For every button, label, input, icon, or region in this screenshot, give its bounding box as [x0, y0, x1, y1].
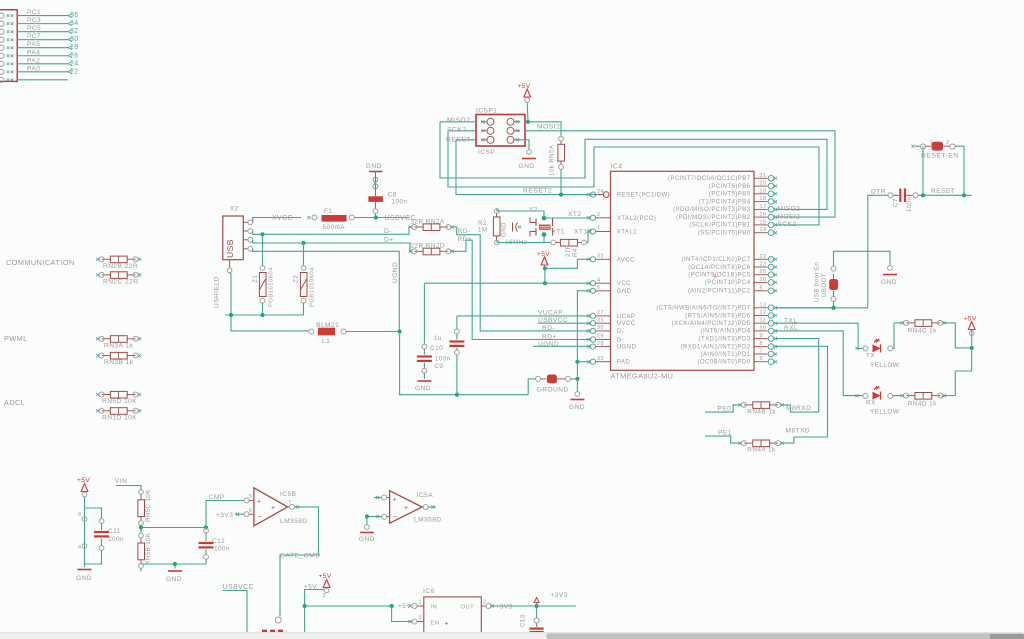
scrollbar thumb	[546, 633, 1024, 639]
svg-text:(AIN0/INT1)PD1: (AIN0/INT1)PD1	[701, 352, 751, 358]
svg-text:2: 2	[483, 600, 486, 606]
svg-text:PA4: PA4	[27, 49, 40, 56]
resistor RN5A 10k pullup	[528, 122, 561, 136]
svg-text:+5V: +5V	[319, 573, 332, 580]
wire R2 top to crystal	[497, 209, 544, 219]
svg-text:RESET: RESET	[931, 188, 955, 195]
header wire row 3	[17, 31, 68, 33]
resistor RN5D	[110, 391, 127, 398]
svg-text:(INT4/ICP1/CLK0)PC7: (INT4/ICP1/CLK0)PC7	[682, 257, 751, 263]
wire M8TXD to PD2	[775, 346, 828, 443]
svg-text:30: 30	[597, 325, 604, 331]
IC4 right pin PC6	[754, 266, 768, 268]
IC4 left pin D-	[590, 328, 595, 333]
op-amp IC5B LM358D	[254, 488, 288, 526]
svg-text:+5V: +5V	[537, 251, 550, 258]
wire +5V to IC6	[304, 589, 324, 591]
IC4 right pin PD3	[754, 338, 768, 340]
svg-text:24: 24	[70, 60, 79, 67]
ground symbol GND bottom-left	[84, 562, 86, 567]
svg-text:PE0: PE0	[717, 406, 731, 413]
svg-text:SCK2: SCK2	[447, 126, 467, 133]
svg-text:10: 10	[760, 325, 767, 331]
svg-text:RN2B 22R: RN2B 22R	[103, 263, 138, 270]
IC4 right pin PD1	[754, 353, 768, 355]
svg-text:22: 22	[70, 68, 79, 75]
svg-text:16: 16	[760, 212, 767, 218]
resistor RN4D 1k	[893, 395, 904, 397]
svg-text:RN5C 10K: RN5C 10K	[145, 489, 152, 522]
svg-text:SCK2: SCK2	[778, 221, 797, 228]
svg-text:23: 23	[760, 262, 767, 268]
svg-text:6: 6	[760, 356, 763, 362]
svg-text:CMP: CMP	[209, 494, 225, 501]
svg-text:PAD: PAD	[617, 360, 630, 366]
svg-text:USB boot En: USB boot En	[814, 262, 821, 302]
wire XT1 crystal bottom	[496, 240, 498, 243]
ground symbol GND below IC5A	[365, 514, 369, 518]
svg-text:+5V: +5V	[518, 83, 531, 90]
svg-text:1: 1	[930, 140, 933, 146]
svg-text:20: 20	[760, 181, 767, 187]
wire USHIELD	[230, 273, 309, 331]
svg-text:D-: D-	[617, 329, 624, 335]
wire TXL from PD5	[775, 323, 863, 348]
wire MOSI2 from ICSP to IC4 PB2	[525, 131, 835, 217]
wire TX LED to RN4C	[893, 323, 904, 349]
solder jumper UBOOT USB boot En	[775, 307, 834, 309]
svg-text:X2: X2	[230, 206, 239, 213]
svg-text:(T1/PCINT4)PB4: (T1/PCINT4)PB4	[699, 199, 751, 205]
svg-text:32: 32	[597, 254, 604, 260]
svg-text:7: 7	[288, 501, 291, 507]
IC4 left pin UVCC	[590, 321, 595, 326]
svg-text:(SCLK/PCINT1)PB1: (SCLK/PCINT1)PB1	[689, 223, 750, 229]
capacitor C8 100n	[368, 196, 383, 202]
wire DTR from PD7	[775, 307, 868, 309]
svg-text:22R RN2D: 22R RN2D	[411, 243, 446, 250]
IC4 right pin PD5	[754, 322, 768, 324]
resistor RN2B	[110, 256, 127, 263]
varistor Z1 PGB1010604	[262, 234, 264, 265]
scrollbar track	[0, 632, 1024, 639]
resistor RN2A 22R	[423, 224, 440, 231]
svg-text:4: 4	[597, 277, 600, 283]
resistor RN1D	[110, 408, 127, 415]
svg-text:GATE_CMD: GATE_CMD	[280, 553, 321, 560]
svg-text:30: 30	[70, 36, 79, 43]
svg-text:RD+: RD+	[542, 333, 557, 340]
net label USBVCC stub	[538, 322, 590, 324]
resistor RN5B 10K	[139, 533, 144, 538]
svg-text:PE1: PE1	[718, 430, 732, 437]
solder jumper RESET-EN	[922, 146, 924, 195]
svg-text:RN5B 10K: RN5B 10K	[145, 533, 152, 565]
resistor RN2C	[110, 272, 127, 279]
svg-text:29: 29	[597, 334, 604, 340]
svg-text:2: 2	[946, 140, 949, 146]
svg-text:UVCC: UVCC	[617, 321, 636, 327]
ground jumper SJ GROUND	[528, 379, 536, 395]
svg-text:−: −	[393, 514, 397, 521]
svg-text:USBVCC: USBVCC	[538, 317, 568, 324]
svg-text:+3V3: +3V3	[551, 592, 568, 599]
wire XT1R to XTAL1	[587, 232, 590, 243]
svg-text:GND: GND	[76, 575, 92, 582]
resistor RN4C 1k	[915, 320, 932, 327]
svg-text:1: 1	[419, 600, 422, 606]
wire VCC	[544, 268, 546, 283]
resistor RN4B 1k	[753, 402, 770, 409]
header wire row 6	[17, 55, 68, 57]
svg-text:RN4B 1k: RN4B 1k	[747, 409, 776, 416]
svg-text:+3V3: +3V3	[496, 603, 513, 610]
capacitor C10 1u	[457, 315, 590, 317]
wire XVCC	[253, 218, 301, 223]
svg-text:XTAL2(PCO): XTAL2(PCO)	[617, 216, 656, 222]
IC4 right pin PD4	[754, 330, 768, 332]
resistor RN2D 22R	[423, 248, 440, 255]
svg-text:4: 4	[78, 545, 81, 551]
svg-text:1: 1	[597, 226, 600, 232]
svg-text:RN4C 1k: RN4C 1k	[908, 328, 937, 335]
IC4 right pin PB5	[754, 193, 768, 195]
wire RESET2 from ICSP	[456, 139, 476, 141]
svg-text:IN: IN	[431, 604, 438, 610]
IC4 left pin UGND	[590, 344, 595, 349]
svg-text:VCC: VCC	[617, 281, 631, 287]
svg-text:25: 25	[760, 269, 767, 275]
svg-text:XT1: XT1	[552, 229, 565, 236]
svg-text:6: 6	[249, 508, 252, 514]
svg-text:(OC1A/PCINT8)PC6: (OC1A/PCINT8)PC6	[688, 265, 750, 271]
header wire row 1	[17, 15, 68, 17]
svg-text:UGND: UGND	[538, 341, 559, 348]
svg-text:100n: 100n	[435, 356, 451, 363]
IC6 EN pin	[392, 606, 412, 622]
svg-text:5: 5	[597, 285, 600, 291]
svg-text:(CTS/HWB/AIN6/TO/INT7)PD7: (CTS/HWB/AIN6/TO/INT7)PD7	[656, 306, 750, 312]
capacitor C7 100n	[888, 193, 893, 198]
svg-text:GND: GND	[415, 385, 431, 392]
svg-text:RESET2: RESET2	[523, 188, 552, 195]
IC4 right pin PC4	[754, 281, 768, 283]
wire PE0 M8RXD	[705, 405, 740, 412]
svg-text:GND: GND	[569, 404, 585, 411]
svg-text:ADCL: ADCL	[4, 398, 25, 407]
svg-text:(PCINT9/OC1B)PC5: (PCINT9/OC1B)PC5	[688, 273, 750, 279]
svg-text:+5V: +5V	[77, 477, 90, 484]
IC4 right pin PB7	[754, 177, 768, 179]
wire +5V to ICSP pin2	[525, 121, 528, 123]
svg-text:(PCINT5)PB5: (PCINT5)PB5	[709, 192, 751, 198]
svg-text:(RXD1/AIN1/INT2)PD2: (RXD1/AIN1/INT2)PD2	[681, 344, 751, 350]
header wire row 4	[17, 39, 68, 41]
gate cmd pin circle	[275, 617, 281, 623]
svg-text:XVCC: XVCC	[272, 215, 293, 222]
svg-text:ICSP: ICSP	[478, 149, 495, 156]
wire CMP node	[141, 527, 206, 529]
svg-text:100n: 100n	[108, 536, 124, 543]
IC4 right pin PC2	[754, 290, 768, 292]
USB shield pin	[229, 260, 231, 268]
svg-text:RESET(PC1/DW): RESET(PC1/DW)	[617, 193, 670, 199]
wire +5V to RN4D	[942, 348, 971, 396]
svg-text:F1: F1	[324, 208, 332, 215]
svg-text:11: 11	[760, 318, 767, 324]
svg-text:LM358D: LM358D	[280, 518, 308, 525]
svg-text:MISO2: MISO2	[778, 206, 801, 213]
IC4 left pin XTAL1	[590, 229, 595, 234]
svg-text:(SS/PCINT0)PB0: (SS/PCINT0)PB0	[698, 231, 751, 237]
svg-text:8: 8	[760, 341, 763, 347]
header wire row 2	[17, 23, 68, 25]
svg-text:31: 31	[597, 317, 604, 323]
svg-text:RN2C 22R: RN2C 22R	[103, 279, 138, 286]
header wire row 9	[17, 79, 68, 81]
svg-text:+: +	[445, 621, 449, 628]
svg-text:PA5: PA5	[27, 41, 40, 48]
svg-text:IC5B: IC5B	[280, 491, 297, 498]
ground symbol GND below C12	[141, 563, 175, 565]
svg-text:7: 7	[760, 349, 763, 355]
svg-text:TX: TX	[866, 353, 875, 360]
svg-text:PA0: PA0	[27, 65, 40, 72]
IC4 right pin PB2	[754, 216, 768, 218]
svg-text:(PDI/MOSI/PCINT2)PB2: (PDI/MOSI/PCINT2)PB2	[676, 215, 751, 221]
svg-text:R4: R4	[572, 248, 579, 257]
svg-text:10k RN5A: 10k RN5A	[549, 144, 556, 176]
svg-text:26: 26	[70, 52, 79, 59]
wire MISO2 from ICSP to IC4 PB3	[469, 121, 476, 123]
svg-text:2: 2	[597, 212, 600, 218]
svg-text:14: 14	[760, 227, 767, 233]
svg-text:Z2: Z2	[293, 275, 300, 283]
LED TX yellow	[855, 347, 858, 350]
IC4 right pin PD2	[754, 346, 768, 348]
svg-text:D+: D+	[384, 236, 394, 243]
svg-text:MISO2: MISO2	[447, 117, 470, 124]
svg-text:13: 13	[760, 302, 767, 308]
resistor RN5C 10K	[139, 490, 144, 495]
svg-text:(INT5/AIN3)PD4: (INT5/AIN3)PD4	[701, 329, 751, 335]
svg-text:RN4A 1k: RN4A 1k	[747, 447, 776, 454]
svg-text:+: +	[257, 499, 261, 506]
svg-text:RN3B 1k: RN3B 1k	[104, 359, 134, 366]
svg-text:(PDO/MISO/PCINT3)PB3: (PDO/MISO/PCINT3)PB3	[673, 207, 751, 213]
svg-text:M8TXD: M8TXD	[786, 428, 811, 435]
svg-text:(AIN2/PCINT11)PC2: (AIN2/PCINT11)PC2	[688, 289, 751, 295]
svg-text:UBOOT: UBOOT	[821, 273, 828, 297]
svg-text:27: 27	[597, 310, 604, 316]
svg-text:8: 8	[78, 512, 81, 518]
svg-text:RD-: RD-	[542, 325, 555, 332]
svg-text:LM358D: LM358D	[414, 517, 442, 524]
svg-text:C10: C10	[430, 345, 443, 352]
resistor RN4A 1k	[753, 440, 770, 447]
wire RD+	[451, 240, 590, 339]
connector header top-left	[0, 10, 17, 82]
svg-text:BLM21: BLM21	[316, 322, 339, 329]
IC4 left pin PAD	[590, 359, 595, 364]
svg-text:DTR: DTR	[871, 189, 886, 196]
svg-text:ATMEGA8U2-MU: ATMEGA8U2-MU	[611, 372, 674, 381]
svg-text:GND: GND	[519, 163, 535, 170]
svg-text:+: +	[271, 505, 275, 512]
svg-text:YELLOW: YELLOW	[870, 362, 900, 369]
svg-text:XT2: XT2	[568, 211, 581, 218]
svg-text:(XCK/AIN4/PCINT12)PD5: (XCK/AIN4/PCINT12)PD5	[672, 321, 751, 327]
svg-text:UGND: UGND	[617, 345, 637, 351]
wire D- from USB	[253, 227, 411, 234]
svg-text:+: +	[393, 497, 397, 504]
wire SCK2 from ICSP to IC4 PB1	[448, 130, 476, 132]
ground symbol GND below GROUND jumper	[576, 379, 578, 392]
svg-text:PGB1010604: PGB1010604	[310, 267, 316, 307]
wire USBVCC	[354, 217, 409, 219]
svg-text:AVCC: AVCC	[617, 257, 635, 263]
IC5 power pins	[82, 517, 87, 522]
svg-text:ICSP1: ICSP1	[476, 108, 497, 115]
svg-text:RN4D 1k: RN4D 1k	[908, 400, 937, 407]
wire RESET	[918, 194, 972, 196]
ferrite bead L1 BLM21	[309, 329, 314, 334]
svg-text:GND: GND	[359, 536, 375, 543]
IC IC4 ATMEGA8U2-MU	[611, 171, 755, 370]
svg-text:RN3A 1k: RN3A 1k	[104, 342, 133, 349]
svg-text:IC5A: IC5A	[417, 492, 434, 499]
IC4 left pin XTAL2(PCO)	[590, 215, 595, 220]
svg-text:(PCINT7/OC0A/OC1C)PB7: (PCINT7/OC0A/OC1C)PB7	[668, 176, 751, 182]
net label UGND stub	[533, 345, 590, 347]
IC4 right pin PB6	[754, 185, 768, 187]
svg-text:9: 9	[760, 333, 763, 339]
IC4 left pin UCAP	[590, 313, 595, 318]
ground symbol GND below ICSP	[518, 140, 529, 150]
svg-text:1u: 1u	[434, 335, 442, 342]
IC4 right pin PC7	[754, 258, 768, 260]
svg-text:YELLOW: YELLOW	[870, 409, 900, 416]
svg-text:PC5: PC5	[27, 25, 41, 32]
svg-text:Y2: Y2	[529, 207, 538, 214]
svg-text:PA2: PA2	[27, 57, 40, 64]
svg-text:GND: GND	[501, 222, 508, 237]
svg-text:IC6: IC6	[423, 588, 435, 595]
fuse F1 500mA	[307, 216, 310, 219]
header wire row 5	[17, 47, 68, 49]
header wire row 7	[17, 63, 68, 65]
svg-text:OUT: OUT	[461, 604, 475, 610]
svg-text:21: 21	[760, 173, 767, 179]
IC4 right pin PC5	[754, 274, 768, 276]
svg-text:(PCINT10)PC4: (PCINT10)PC4	[705, 280, 751, 286]
LED RX yellow	[855, 394, 858, 397]
svg-text:500mA: 500mA	[323, 224, 346, 231]
svg-text:UCAP: UCAP	[617, 314, 635, 320]
ground symbol GND right	[888, 266, 893, 271]
capacitor C11 100n	[99, 519, 104, 524]
IC4 right pin PB0	[754, 232, 768, 234]
svg-text:34: 34	[70, 20, 79, 27]
resistor R2 1M	[495, 209, 500, 214]
svg-text:33: 33	[597, 356, 604, 362]
svg-text:EN: EN	[431, 620, 440, 626]
svg-text:5: 5	[249, 494, 252, 500]
ground symbol GND below C9	[423, 373, 425, 379]
svg-text:C11: C11	[108, 528, 121, 535]
svg-text:PC1: PC1	[27, 9, 41, 16]
svg-text:RN5D 10K: RN5D 10K	[102, 398, 137, 405]
svg-text:GROUND: GROUND	[537, 386, 569, 393]
wire XT2 to XTAL2	[544, 217, 590, 219]
svg-text:RD-: RD-	[458, 228, 471, 235]
svg-text:VIN: VIN	[115, 478, 127, 485]
svg-text:28: 28	[597, 341, 604, 347]
resistor R4 27R in XT1 line	[551, 240, 556, 245]
IC4 right pin PB3	[754, 208, 768, 210]
svg-text:GND: GND	[881, 279, 897, 286]
svg-text:22: 22	[760, 254, 767, 260]
IC4 right pin PD6	[754, 315, 768, 317]
svg-text:5: 5	[760, 285, 763, 291]
wire +5V to C11	[85, 508, 102, 519]
svg-text:GND: GND	[617, 289, 632, 295]
svg-text:+: +	[404, 505, 408, 512]
resistor RN3A	[110, 336, 127, 343]
svg-text:RXL: RXL	[784, 325, 798, 332]
svg-text:MOSI2: MOSI2	[778, 213, 801, 220]
IC6 OUT pin +3V3	[481, 605, 486, 607]
resistor RN3B	[110, 352, 127, 359]
IC4 right pin PD7	[754, 307, 768, 309]
svg-text:22R RN2A: 22R RN2A	[411, 219, 445, 226]
svg-text:C7: C7	[893, 198, 900, 207]
svg-text:L1: L1	[322, 338, 330, 345]
svg-text:TXL: TXL	[784, 317, 797, 324]
svg-text:PWML: PWML	[4, 334, 28, 343]
IC4 left pin VCC	[590, 281, 595, 286]
svg-text:15: 15	[760, 219, 767, 225]
svg-text:24: 24	[597, 189, 604, 195]
svg-text:1M: 1M	[478, 227, 487, 234]
svg-text:3: 3	[419, 615, 422, 621]
svg-text:RESET-EN: RESET-EN	[921, 153, 959, 160]
svg-text:GND: GND	[166, 576, 182, 583]
svg-text:MOSI2: MOSI2	[537, 123, 560, 130]
svg-text:−: −	[258, 514, 262, 521]
svg-text:C13: C13	[520, 614, 527, 627]
wire GND pin of IC4 down to ground net	[577, 291, 590, 362]
svg-text:PGB1010604: PGB1010604	[269, 267, 275, 307]
svg-text:28: 28	[70, 44, 79, 51]
svg-text:Z1: Z1	[252, 275, 259, 283]
svg-text:(TXD1/INT3)PD3: (TXD1/INT3)PD3	[699, 336, 751, 342]
svg-text:C12: C12	[212, 538, 225, 545]
svg-text:100n: 100n	[392, 199, 408, 206]
wire RN4C to +5V	[942, 323, 971, 348]
svg-text:18: 18	[760, 196, 767, 202]
varistor Z2 PGB1010604	[303, 243, 305, 266]
svg-text:XT1R: XT1R	[574, 229, 593, 236]
svg-text:PC7: PC7	[27, 33, 41, 40]
svg-text:D-: D-	[384, 228, 392, 235]
IC4 right pin PB4	[754, 201, 768, 203]
svg-text:17: 17	[760, 204, 767, 210]
wire RD-	[451, 227, 590, 331]
IC4 left pin D-	[590, 337, 595, 342]
svg-text:UGND: UGND	[392, 262, 399, 283]
svg-text:+5V: +5V	[964, 315, 977, 322]
